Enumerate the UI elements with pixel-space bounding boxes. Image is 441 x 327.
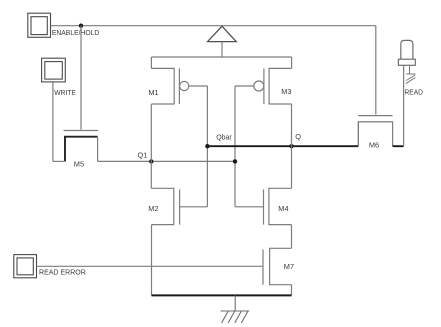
node Q1 junction [149, 159, 153, 163]
svg-text:M5: M5 [74, 160, 84, 169]
wire net Q (thick) [207, 145, 358, 147]
svg-text:READ: READ [405, 87, 424, 96]
svg-text:ENABLE/HOLD: ENABLE/HOLD [52, 28, 99, 37]
wire M3 drain to M4 drain [291, 104, 293, 188]
transistor M2 (NMOS) [151, 188, 207, 225]
svg-text:Q1: Q1 [138, 150, 148, 159]
port READ ERROR [14, 255, 37, 278]
wire M1 gate to Q and M2 gate [206, 86, 208, 207]
transistor M5 (NMOS access, gate on top) [53, 131, 98, 162]
svg-text:M3: M3 [281, 87, 291, 96]
svg-text:M1: M1 [148, 88, 158, 97]
transistor M7 (NMOS) [263, 248, 292, 285]
svg-text:M6: M6 [369, 140, 379, 149]
node junction enable [79, 24, 83, 28]
wire WRITE to M5 source [52, 82, 54, 161]
transistor M6 (NMOS access, gate on top) [358, 116, 404, 147]
node Q left junction [205, 144, 209, 148]
transistor M1 (PMOS) [151, 57, 207, 105]
wire M4 source to M7 drain [291, 225, 293, 249]
wire M2 source to ground rail [151, 225, 153, 296]
node Q1-M3gate junction [233, 159, 237, 163]
wire enable top [51, 25, 376, 27]
LED light emission arrows [406, 65, 416, 83]
wire M1 drain to M2 drain [150, 104, 152, 188]
transistor M4 (NMOS) [235, 188, 292, 225]
svg-text:READ ERROR: READ ERROR [39, 267, 86, 276]
wire M3 gate to Q1 and M4 gate [234, 86, 236, 207]
wire net Q1 [98, 160, 235, 162]
svg-text:M7: M7 [284, 262, 294, 271]
port WRITE [42, 58, 66, 82]
node Q drain junction [289, 144, 293, 148]
ground symbol [221, 295, 250, 322]
wire enable to M5 gate [80, 26, 82, 130]
wire VDD stem [221, 42, 223, 57]
wire READ ERROR to M7 gate [37, 265, 264, 267]
port ENABLE/HOLD [28, 13, 51, 37]
power VDD triangle [208, 26, 237, 41]
wire M7 source to ground rail [291, 285, 293, 296]
wire VDD rail [151, 56, 291, 58]
svg-text:Q: Q [295, 132, 301, 141]
svg-text:WRITE: WRITE [54, 88, 76, 97]
transistor M3 (PMOS) [235, 57, 292, 105]
LED lamp symbol [398, 40, 415, 65]
wire enable to M6 gate [375, 26, 377, 115]
wire LED to M6 drain [403, 65, 405, 146]
svg-text:Qbar: Qbar [216, 132, 232, 141]
svg-text:M2: M2 [148, 204, 158, 213]
wire ground rail (thick) [152, 294, 292, 296]
svg-text:M4: M4 [278, 204, 288, 213]
